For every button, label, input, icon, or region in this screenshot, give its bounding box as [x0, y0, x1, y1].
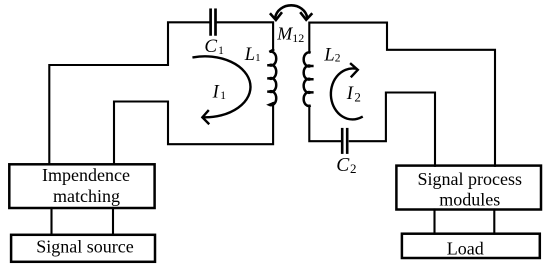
svg-text:I1: I1 [212, 82, 227, 102]
block: signal source box [11, 235, 155, 262]
svg-text:C2: C2 [336, 155, 356, 176]
svg-text:Signal source: Signal source [36, 237, 133, 257]
capacitor C1 [211, 10, 216, 35]
block: signal process modules box [396, 166, 541, 210]
svg-text:Signal process: Signal process [418, 169, 522, 189]
wire: L1 bottom around left loop to lower lead into impedance-matching box [114, 102, 273, 165]
inductor L1 [267, 50, 276, 105]
wire: top wire from C1 to top of L1 [216, 22, 273, 50]
wire: impedance box to signal source (left) [50, 208, 52, 235]
svg-text:I2: I2 [346, 84, 361, 105]
capacitor C2 [342, 129, 347, 152]
block: impedance matching box [9, 164, 154, 208]
svg-text:Load: Load [447, 239, 484, 259]
block: load box [402, 234, 540, 258]
wire: L2 bottom to C2 [309, 106, 340, 141]
svg-text:Impendence: Impendence [42, 165, 130, 185]
svg-text:matching: matching [53, 186, 120, 206]
wire: C2 to lower lead into signal-process box [350, 93, 435, 166]
mutual coupling arrow M12 [271, 5, 312, 20]
current arrow I2 [331, 64, 362, 120]
svg-text:L1: L1 [244, 45, 261, 65]
wire: signal-process box to load (right) [493, 210, 495, 234]
wire: signal-process box to load (left) [433, 210, 435, 234]
wire: impedance box to signal source (right) [112, 208, 114, 235]
svg-text:modules: modules [439, 189, 500, 209]
wire: top of L2 over to upper lead into signal-process box [309, 23, 495, 166]
wire: upper-left lead from C1 to impedance-matching box [49, 22, 209, 164]
current arrow I1 [194, 56, 251, 123]
svg-text:M12: M12 [276, 24, 304, 45]
svg-text:C1: C1 [204, 36, 224, 57]
inductor L2 [304, 52, 314, 106]
svg-text:L2: L2 [323, 45, 340, 65]
